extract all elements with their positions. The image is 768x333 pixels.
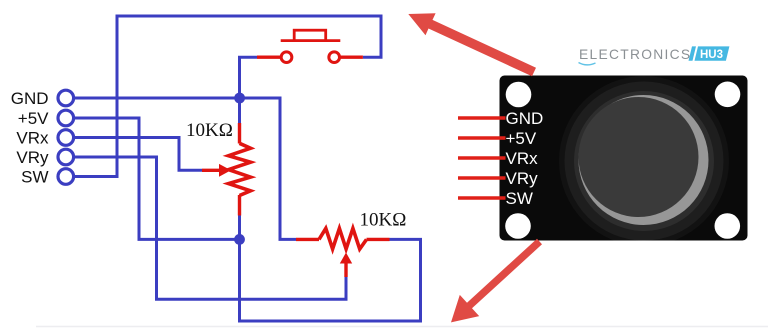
svg-text:+5V: +5V: [506, 129, 537, 148]
svg-text:VRx: VRx: [506, 149, 539, 168]
svg-text:VRy: VRy: [506, 169, 539, 188]
svg-text:VRy: VRy: [16, 148, 49, 167]
svg-text:10KΩ: 10KΩ: [360, 210, 407, 231]
svg-text:GND: GND: [11, 89, 49, 108]
svg-text:10KΩ: 10KΩ: [186, 120, 233, 141]
svg-text:VRx: VRx: [16, 129, 49, 148]
svg-text:SW: SW: [506, 189, 533, 208]
svg-text:HU3: HU3: [700, 49, 723, 61]
svg-text:SW: SW: [21, 168, 48, 187]
svg-text:+5V: +5V: [18, 109, 49, 128]
svg-text:ELECTRONICS: ELECTRONICS: [579, 47, 691, 62]
svg-text:GND: GND: [506, 109, 544, 128]
